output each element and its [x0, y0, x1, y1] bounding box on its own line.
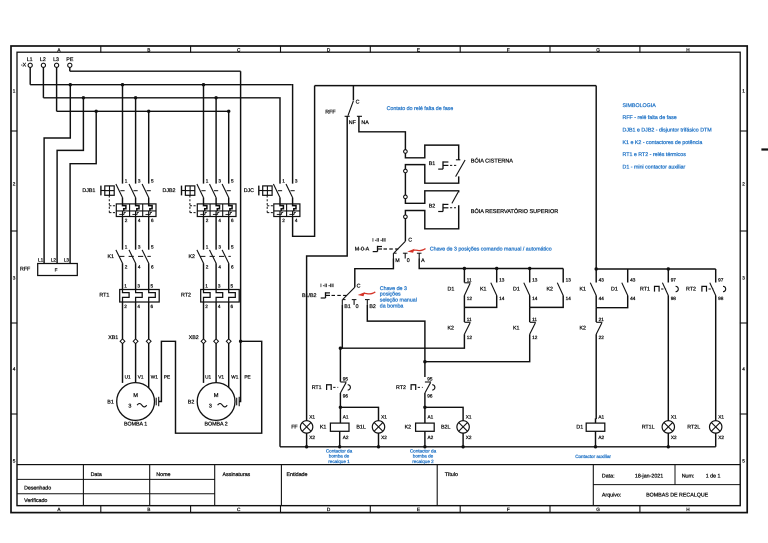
- svg-text:L1: L1: [38, 257, 44, 262]
- svg-text:bomba de: bomba de: [329, 454, 350, 459]
- wire DJC pole2 down to bottom rail: [279, 217, 281, 447]
- svg-text:11: 11: [532, 317, 537, 322]
- svg-text:14: 14: [566, 296, 572, 301]
- svg-text:X2: X2: [381, 435, 387, 440]
- svg-text:V1: V1: [218, 374, 224, 379]
- svg-text:SIMBOLOGIA: SIMBOLOGIA: [623, 103, 657, 109]
- svg-text:Contactor auxiliar: Contactor auxiliar: [575, 454, 611, 459]
- node dots on automatic feed line: [463, 267, 466, 270]
- svg-text:43: 43: [630, 277, 636, 282]
- svg-text:X1: X1: [309, 414, 315, 419]
- svg-text:22: 22: [599, 335, 605, 340]
- svg-text:5: 5: [151, 178, 154, 183]
- svg-text:5: 5: [13, 459, 16, 464]
- svg-text:E: E: [417, 47, 420, 52]
- svg-text:3: 3: [742, 276, 745, 281]
- svg-text:G: G: [596, 47, 600, 52]
- svg-text:bomba de: bomba de: [413, 454, 434, 459]
- svg-text:A2: A2: [428, 435, 434, 440]
- svg-text:BOMBAS DE RECALQUE: BOMBAS DE RECALQUE: [646, 492, 709, 498]
- svg-text:6: 6: [151, 304, 154, 309]
- contact K1 43-44 (NO): [595, 269, 597, 283]
- svg-text:B1L: B1L: [356, 425, 365, 431]
- svg-text:1: 1: [13, 89, 16, 94]
- wire L2 bus: [42, 67, 44, 97]
- wire right feed line: [596, 268, 716, 270]
- svg-text:5: 5: [151, 244, 154, 249]
- svg-text:96: 96: [343, 394, 349, 399]
- svg-text:0: 0: [407, 258, 410, 264]
- svg-text:RT2: RT2: [396, 385, 406, 391]
- svg-text:1: 1: [206, 178, 209, 183]
- svg-text:B1: B1: [107, 399, 114, 405]
- svg-text:4: 4: [742, 367, 745, 372]
- svg-text:I -II -III: I -II -III: [372, 238, 386, 243]
- svg-text:1: 1: [124, 283, 127, 288]
- coil D1: [595, 419, 598, 423]
- svg-text:da bomba: da bomba: [380, 303, 404, 309]
- svg-text:3: 3: [138, 178, 141, 183]
- svg-text:X2: X2: [466, 435, 472, 440]
- svg-text:C: C: [408, 237, 412, 243]
- motor B2 (BOMBA 2): [197, 383, 235, 421]
- lamp RT2L: [710, 421, 722, 433]
- wires L buses down to DJB1: [122, 85, 124, 184]
- svg-text:K2: K2: [547, 287, 554, 293]
- svg-text:PE: PE: [66, 57, 74, 63]
- wire selector B1 down to RT1 aux: [340, 305, 342, 348]
- node dot right feed: [595, 267, 598, 270]
- svg-text:6: 6: [231, 218, 234, 223]
- svg-text:12: 12: [467, 335, 473, 340]
- svg-text:X1: X1: [381, 414, 387, 419]
- svg-text:W1: W1: [231, 374, 238, 379]
- svg-text:D1: D1: [513, 287, 520, 293]
- svg-text:F: F: [507, 507, 510, 512]
- svg-text:C: C: [237, 507, 241, 512]
- wire L3 bus: [56, 67, 58, 111]
- red arrow chave selecao: [362, 292, 375, 294]
- contact D1 43-44 (NO): [627, 269, 629, 283]
- svg-text:5: 5: [742, 459, 745, 464]
- float switch B1 (BOIA CISTERNA) loop: [405, 145, 458, 159]
- svg-text:Data: Data: [91, 472, 102, 478]
- relay contact RFF (C/NF/NA): [352, 86, 354, 101]
- red arrow chave comando: [413, 249, 426, 251]
- svg-text:NA: NA: [361, 120, 369, 126]
- svg-text:DJC: DJC: [244, 188, 254, 194]
- svg-text:K2: K2: [580, 326, 587, 332]
- svg-text:2: 2: [125, 218, 128, 223]
- svg-text:3: 3: [13, 276, 16, 281]
- svg-text:B2: B2: [188, 399, 195, 405]
- thermal contact RT1 97-98 (NO): [667, 269, 669, 283]
- wires RT2 to motor B2: [203, 302, 205, 383]
- svg-text:98: 98: [671, 296, 677, 301]
- wires L buses down to DJB2: [203, 85, 205, 184]
- svg-text:RFF - relé falta de fase: RFF - relé falta de fase: [623, 115, 677, 121]
- svg-text:RFF: RFF: [20, 266, 31, 272]
- svg-text:RT2L: RT2L: [687, 425, 700, 431]
- svg-text:Assinaturas: Assinaturas: [223, 472, 251, 478]
- wire L2 tap to RFF: [57, 98, 83, 264]
- wire PE drop to motor B2: [239, 71, 240, 401]
- svg-text:95: 95: [343, 377, 349, 382]
- coil K1: [339, 406, 342, 409]
- svg-text:DJB1 e DJB2 - disjuntor trifás: DJB1 e DJB2 - disjuntor trifásico DTM: [623, 128, 712, 134]
- svg-text:B2L: B2L: [441, 425, 450, 431]
- svg-text:D1: D1: [448, 287, 455, 293]
- svg-text:B1: B1: [344, 304, 351, 310]
- svg-text:1: 1: [125, 244, 128, 249]
- svg-text:X2: X2: [718, 435, 724, 440]
- svg-text:4: 4: [138, 264, 141, 269]
- svg-text:X2: X2: [309, 435, 315, 440]
- svg-text:G: G: [596, 507, 600, 512]
- svg-text:RT1: RT1: [640, 287, 650, 293]
- svg-text:Contato do relé falta de fase: Contato do relé falta de fase: [387, 106, 454, 112]
- svg-text:3: 3: [128, 403, 131, 409]
- svg-text:PE: PE: [164, 374, 170, 379]
- svg-text:DJB1: DJB1: [82, 188, 95, 194]
- svg-text:11: 11: [467, 277, 472, 282]
- svg-text:X1: X1: [718, 414, 724, 419]
- wire L3 tap to RFF: [70, 111, 96, 263]
- svg-text:XB2: XB2: [189, 335, 199, 341]
- svg-text:18-jan-2021: 18-jan-2021: [635, 474, 663, 480]
- svg-text:M: M: [133, 393, 138, 399]
- svg-text:2: 2: [125, 264, 128, 269]
- svg-text:13: 13: [566, 277, 572, 282]
- wire bottom rail: [280, 446, 716, 448]
- svg-text:2: 2: [282, 218, 285, 223]
- svg-text:C: C: [237, 47, 241, 52]
- svg-text:3: 3: [295, 178, 298, 183]
- wire A to automatic feed line: [419, 259, 563, 269]
- svg-text:1: 1: [205, 283, 208, 288]
- svg-text:M: M: [395, 258, 399, 264]
- svg-text:3: 3: [218, 244, 221, 249]
- svg-text:BOMBA 2: BOMBA 2: [204, 422, 227, 428]
- svg-text:BÓIA RESERVATÓRIO SUPERIOR: BÓIA RESERVATÓRIO SUPERIOR: [471, 208, 558, 215]
- lamp B2L: [425, 407, 463, 420]
- float switch B2 (BOIA RESERVATORIO) loop: [405, 191, 458, 204]
- svg-text:K1: K1: [513, 326, 520, 332]
- svg-text:44: 44: [599, 296, 605, 301]
- svg-text:4: 4: [138, 218, 141, 223]
- svg-text:14: 14: [499, 296, 505, 301]
- svg-text:Contactor da: Contactor da: [326, 448, 353, 453]
- contact K2 21-22 (NC): [595, 308, 597, 322]
- contact D1 13-14 (NO): [529, 269, 531, 283]
- svg-text:A: A: [421, 258, 425, 264]
- svg-text:L3: L3: [53, 57, 59, 63]
- svg-text:5: 5: [151, 283, 154, 288]
- svg-text:1: 1: [206, 244, 209, 249]
- svg-text:W1: W1: [151, 374, 158, 379]
- svg-text:3: 3: [137, 283, 140, 288]
- svg-text:0: 0: [356, 304, 359, 310]
- svg-text:1: 1: [282, 178, 285, 183]
- svg-text:3: 3: [138, 244, 141, 249]
- svg-text:L2: L2: [51, 257, 57, 262]
- svg-text:E: E: [417, 507, 420, 512]
- svg-text:Verificado: Verificado: [24, 498, 47, 504]
- svg-text:11: 11: [467, 317, 472, 322]
- contact D1 11-12 (NC): [463, 269, 465, 283]
- svg-text:3: 3: [218, 283, 221, 288]
- svg-text:12: 12: [467, 296, 473, 301]
- svg-text:D1: D1: [611, 287, 618, 293]
- contact K1 11-12 (NC): [529, 307, 531, 322]
- svg-text:BOMBA 1: BOMBA 1: [124, 422, 147, 428]
- wire selector B2 over to K2 branch: [367, 305, 425, 362]
- coil K2: [423, 406, 426, 409]
- motor B1 (BOMBA 1): [117, 383, 155, 421]
- svg-text:U1: U1: [125, 374, 131, 379]
- svg-text:6: 6: [231, 304, 234, 309]
- svg-text:Título: Título: [445, 472, 458, 478]
- lamp FF: [306, 420, 308, 422]
- svg-text:98: 98: [718, 296, 724, 301]
- svg-text:F: F: [507, 47, 510, 52]
- contact K2 13-14 (NO): [562, 269, 564, 283]
- contact K2 11-12 (NC): [463, 307, 465, 322]
- svg-text:B: B: [147, 47, 150, 52]
- svg-text:F: F: [55, 267, 58, 272]
- wire M to selector B1/B2 common: [355, 259, 394, 288]
- svg-text:M: M: [214, 393, 219, 399]
- svg-text:6: 6: [151, 218, 154, 223]
- wire L1 bus: [29, 67, 31, 84]
- svg-text:H: H: [686, 47, 689, 52]
- svg-text:BÓIA CISTERNA: BÓIA CISTERNA: [471, 158, 514, 165]
- wire float rail middle: [404, 173, 406, 195]
- svg-text:K1: K1: [320, 425, 327, 431]
- svg-text:97: 97: [718, 277, 724, 282]
- wire NF rail down-left to FF lamp: [307, 116, 348, 420]
- selector switch M-0-A: [404, 219, 406, 242]
- svg-text:A1: A1: [428, 414, 434, 419]
- svg-text:5: 5: [231, 178, 234, 183]
- svg-text:XB1: XB1: [108, 335, 118, 341]
- svg-text:21: 21: [599, 317, 605, 322]
- svg-text:K1: K1: [108, 254, 115, 260]
- svg-text:RFF: RFF: [325, 109, 336, 115]
- svg-text:V1: V1: [138, 374, 144, 379]
- svg-text:H: H: [686, 507, 689, 512]
- svg-text:I -II -III: I -II -III: [320, 283, 334, 288]
- svg-text:2: 2: [742, 182, 745, 187]
- svg-text:A2: A2: [598, 435, 604, 440]
- svg-text:L3: L3: [64, 257, 70, 262]
- svg-text:-X: -X: [21, 63, 27, 69]
- contact K1 13-14 (NO): [496, 269, 498, 283]
- svg-text:Nome: Nome: [156, 472, 170, 478]
- svg-text:2: 2: [206, 264, 209, 269]
- svg-text:RT1 e RT2 - relés térmicos: RT1 e RT2 - relés térmicos: [623, 152, 687, 158]
- wire control top feed rail: [315, 85, 597, 87]
- svg-text:Chave de 3 posições comando ma: Chave de 3 posições comando manual / aut…: [430, 246, 552, 252]
- svg-text:K1 e K2 - contactores de potên: K1 e K2 - contactores de potência: [623, 140, 703, 146]
- lamp RT1L: [662, 421, 674, 433]
- svg-text:1 de 1: 1 de 1: [706, 474, 721, 480]
- svg-text:2: 2: [124, 304, 127, 309]
- svg-text:recalque 2: recalque 2: [412, 459, 434, 464]
- wires L buses down to DJC: [279, 98, 281, 184]
- svg-text:D1 - mini contactor auxiliar: D1 - mini contactor auxiliar: [623, 164, 686, 170]
- thermal contact RT2 97-98 (NO): [715, 269, 717, 283]
- svg-text:X1: X1: [466, 414, 472, 419]
- svg-text:recalque 1: recalque 1: [328, 459, 350, 464]
- svg-text:X1: X1: [671, 414, 677, 419]
- svg-text:K1: K1: [580, 287, 587, 293]
- svg-text:14: 14: [532, 296, 538, 301]
- svg-text:2: 2: [13, 182, 16, 187]
- svg-text:RT1: RT1: [312, 385, 322, 391]
- svg-text:K2: K2: [189, 254, 196, 260]
- svg-text:4: 4: [218, 264, 221, 269]
- svg-text:L2: L2: [40, 57, 46, 63]
- wire NA to float-switch rail: [359, 116, 406, 149]
- svg-text:RT2: RT2: [686, 287, 696, 293]
- svg-text:PE: PE: [244, 374, 250, 379]
- svg-text:1: 1: [742, 89, 745, 94]
- svg-text:2: 2: [206, 218, 209, 223]
- svg-text:K1: K1: [480, 287, 487, 293]
- svg-text:Contactor da: Contactor da: [410, 448, 437, 453]
- svg-text:4: 4: [218, 218, 221, 223]
- svg-text:97: 97: [671, 277, 677, 282]
- wires RT1 to motor B1: [122, 302, 124, 383]
- svg-text:13: 13: [499, 277, 505, 282]
- svg-text:2: 2: [205, 304, 208, 309]
- svg-text:43: 43: [599, 277, 605, 282]
- svg-text:1: 1: [125, 178, 128, 183]
- svg-text:L1: L1: [27, 57, 33, 63]
- svg-text:Arquivo:: Arquivo:: [602, 492, 621, 498]
- svg-text:4: 4: [218, 304, 221, 309]
- svg-text:RT1: RT1: [99, 293, 109, 299]
- svg-text:44: 44: [630, 296, 636, 301]
- svg-text:4: 4: [13, 367, 16, 372]
- svg-text:NF: NF: [349, 120, 357, 126]
- svg-text:6: 6: [151, 264, 154, 269]
- svg-text:D1: D1: [576, 425, 583, 431]
- lamp B1L: [340, 407, 378, 420]
- svg-text:K2: K2: [405, 425, 412, 431]
- svg-text:4: 4: [295, 218, 298, 223]
- svg-text:C: C: [357, 284, 361, 290]
- svg-text:Entidade: Entidade: [287, 472, 308, 478]
- svg-text:DJB2: DJB2: [163, 188, 176, 194]
- wire PE bus: [69, 67, 71, 71]
- wire L1 tap to RFF: [44, 85, 70, 264]
- svg-text:A2: A2: [343, 435, 349, 440]
- svg-text:FF: FF: [291, 425, 298, 431]
- svg-text:C: C: [356, 99, 360, 105]
- svg-text:3: 3: [218, 178, 221, 183]
- svg-text:B1: B1: [429, 161, 436, 167]
- svg-text:13: 13: [532, 277, 538, 282]
- svg-text:95: 95: [427, 377, 433, 382]
- svg-text:Num:: Num:: [682, 474, 695, 480]
- svg-text:A1: A1: [343, 414, 349, 419]
- svg-text:K2: K2: [448, 326, 455, 332]
- node terminal circles on float rail: [404, 150, 408, 154]
- svg-text:B: B: [147, 507, 150, 512]
- svg-text:3: 3: [209, 403, 212, 409]
- svg-text:Desenhado: Desenhado: [24, 486, 51, 492]
- wire PE link loop to motor B1: [159, 341, 262, 433]
- svg-text:4: 4: [137, 304, 140, 309]
- wire DJC pole4 up to control feed rail: [293, 86, 315, 237]
- svg-text:12: 12: [532, 335, 538, 340]
- svg-text:5: 5: [231, 244, 234, 249]
- svg-text:RT2: RT2: [181, 293, 191, 299]
- svg-text:5: 5: [231, 283, 234, 288]
- svg-text:6: 6: [231, 264, 234, 269]
- svg-text:RT1L: RT1L: [642, 425, 655, 431]
- svg-text:Data:: Data:: [602, 474, 615, 480]
- wire right feed rail down: [595, 86, 597, 269]
- svg-text:M-0-A: M-0-A: [355, 246, 370, 252]
- svg-text:B2: B2: [369, 304, 376, 310]
- svg-text:U1: U1: [205, 374, 211, 379]
- svg-text:B1/B2: B1/B2: [302, 293, 316, 299]
- title block: [17, 465, 740, 506]
- svg-text:B2: B2: [429, 204, 436, 210]
- svg-text:96: 96: [427, 394, 433, 399]
- svg-text:X2: X2: [671, 435, 677, 440]
- svg-text:A1: A1: [598, 414, 604, 419]
